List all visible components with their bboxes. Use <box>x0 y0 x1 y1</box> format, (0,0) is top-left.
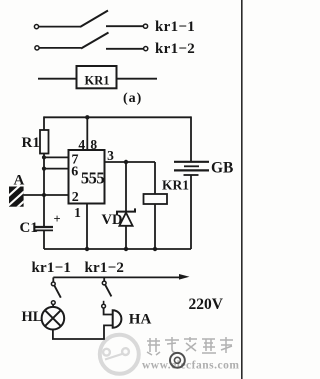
svg-text:A: A <box>14 173 25 189</box>
svg-text:kr1−2: kr1−2 <box>85 260 125 276</box>
junction <box>85 247 89 251</box>
page border line <box>241 0 243 379</box>
junction <box>42 167 46 171</box>
svg-text:220V: 220V <box>189 296 224 313</box>
switch kr1-2 blade <box>105 285 111 297</box>
wire left rail top <box>43 116 45 130</box>
svg-text:GB: GB <box>211 160 233 177</box>
wire to bell <box>104 308 113 315</box>
wire lamp to bottom <box>53 325 113 339</box>
svg-text:kr1−1: kr1−1 <box>32 260 72 276</box>
switch kr1-1 blade <box>80 11 108 28</box>
junction <box>124 160 128 164</box>
wire <box>106 25 143 27</box>
switch kr1-1 lower contact <box>51 301 55 305</box>
node A terminal (hatched box) <box>5 181 36 219</box>
switch kr1-2 left contact <box>35 46 39 50</box>
svg-text:2: 2 <box>72 190 79 205</box>
relay coil KR1 <box>144 194 168 204</box>
bell HA <box>113 310 122 327</box>
wire ground rail <box>44 248 191 250</box>
wire <box>52 305 54 308</box>
switch kr1-2 right contact <box>144 47 148 51</box>
wire <box>38 78 77 80</box>
diode VD (zener) <box>117 208 135 225</box>
svg-text:1: 1 <box>74 205 81 220</box>
svg-text:R1: R1 <box>22 135 40 151</box>
svg-text:VD: VD <box>102 212 123 228</box>
junction <box>124 247 128 251</box>
svg-text:+: + <box>54 212 61 226</box>
switch kr1-2 upper contact <box>103 277 105 281</box>
svg-text:C1: C1 <box>20 220 38 236</box>
battery GB <box>174 162 209 175</box>
wire pin 7 <box>44 156 69 158</box>
svg-text:(a): (a) <box>123 91 142 106</box>
svg-text:kr1−2: kr1−2 <box>155 41 195 57</box>
wire <box>40 47 82 49</box>
svg-text:6: 6 <box>71 165 78 180</box>
resistor R1 <box>40 130 49 154</box>
wire battery bottom <box>190 175 192 249</box>
watermark logo circle <box>100 335 139 374</box>
wire node A to pin 2 <box>24 194 69 196</box>
wire left rail middle <box>43 154 45 227</box>
switch kr1-1 left contact <box>34 25 38 29</box>
arrowhead <box>179 274 190 280</box>
wire pin 3 <box>105 161 156 163</box>
watermark text 电子发烧友 <box>147 337 233 355</box>
capacitor C1 <box>35 227 53 230</box>
svg-text:www.elecfans.com: www.elecfans.com <box>142 360 239 372</box>
switch kr1-2 lower contact <box>103 301 105 304</box>
junction <box>42 155 46 159</box>
svg-text:KR1: KR1 <box>162 178 189 193</box>
junction <box>42 193 46 197</box>
op-amp/timer IC 555 <box>69 150 105 204</box>
wire diode branch <box>125 162 127 249</box>
svg-text:3: 3 <box>107 148 114 163</box>
switch kr1-1 upper contact <box>52 277 54 282</box>
svg-text:555: 555 <box>81 169 105 188</box>
wire to relay coil <box>154 162 156 194</box>
junction <box>153 247 157 251</box>
wire pins 4,8 <box>86 117 88 150</box>
wire <box>39 26 80 28</box>
junction <box>85 115 89 119</box>
wire left rail bottom <box>43 230 45 249</box>
wire top rail <box>44 116 191 118</box>
wire pin 6 <box>44 168 69 170</box>
svg-text:kr1−1: kr1−1 <box>155 19 195 35</box>
wire <box>117 78 158 80</box>
switch kr1-2 blade <box>81 33 109 49</box>
wire 220V bus <box>53 276 181 278</box>
wire <box>106 48 144 50</box>
watermark ring glyph <box>170 353 185 368</box>
wire coil to ground rail <box>154 204 156 249</box>
svg-text:KR1: KR1 <box>85 74 110 88</box>
wire battery top <box>190 116 192 161</box>
svg-text:HA: HA <box>129 312 152 328</box>
lamp HL <box>42 307 65 330</box>
switch kr1-1 blade <box>54 285 61 297</box>
svg-text:HL: HL <box>22 309 43 325</box>
switch kr1-1 right contact <box>143 24 147 28</box>
wire pin 1 to ground rail <box>86 204 88 250</box>
relay contact box KR1 (a) <box>77 66 117 88</box>
